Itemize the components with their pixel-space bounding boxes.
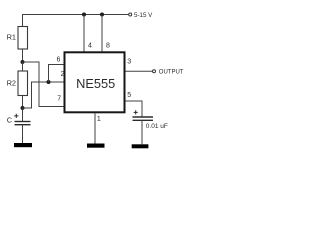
wire pin 3 (output): [126, 70, 153, 72]
node B junction dot: [21, 106, 25, 110]
svg-text:5: 5: [127, 92, 131, 99]
IC NE555: [65, 52, 125, 112]
capacitor C2 plates: [133, 117, 154, 120]
wire pin 4: [83, 15, 85, 52]
svg-text:3: 3: [127, 59, 131, 66]
resistor R1: [18, 27, 28, 50]
wire pin 1 to ground: [94, 113, 96, 143]
polarity + of C: [14, 114, 18, 118]
svg-text:7: 7: [57, 95, 61, 102]
wire R2 to node B: [22, 96, 24, 109]
wire node A to pin 7 (discharge): [23, 62, 64, 107]
resistor R2: [18, 71, 28, 96]
junction dot at pin 8 riser: [100, 13, 104, 17]
capacitor C plates: [15, 122, 31, 125]
svg-text:6: 6: [57, 57, 61, 64]
ground symbol below C2: [132, 144, 149, 148]
svg-text:OUTPUT: OUTPUT: [159, 70, 184, 76]
svg-text:5-15 V: 5-15 V: [134, 12, 153, 19]
wire pin 6 (threshold): [49, 65, 64, 83]
wire node B to pin 2 (trigger): [23, 82, 64, 108]
polarity + of C2: [134, 110, 138, 114]
svg-text:8: 8: [106, 43, 110, 50]
svg-text:0.01 uF: 0.01 uF: [146, 123, 168, 130]
junction dot at pin 4 riser: [82, 13, 86, 17]
output terminal circle: [153, 70, 156, 73]
ground symbol below C: [14, 143, 32, 147]
svg-text:4: 4: [88, 43, 92, 50]
wire Vcc top rail: [23, 15, 129, 27]
svg-text:NE555: NE555: [76, 76, 115, 91]
svg-text:C: C: [7, 115, 13, 124]
power terminal circle: [129, 13, 132, 16]
node A junction dot: [21, 60, 25, 64]
svg-text:R2: R2: [7, 78, 16, 87]
junction dot pins 2-6 tie: [47, 80, 51, 84]
wire pin 8: [101, 15, 103, 52]
wire C to ground: [22, 125, 24, 143]
ground symbol below pin 1: [87, 144, 105, 148]
svg-text:R1: R1: [7, 32, 16, 41]
wire node A to R2: [22, 62, 24, 71]
wire pin 5 (control): [126, 101, 143, 117]
wire node B to capacitor C: [22, 108, 24, 122]
svg-text:1: 1: [97, 116, 101, 123]
wire R1 to node A: [22, 49, 24, 62]
wire C2 to ground: [141, 120, 143, 144]
